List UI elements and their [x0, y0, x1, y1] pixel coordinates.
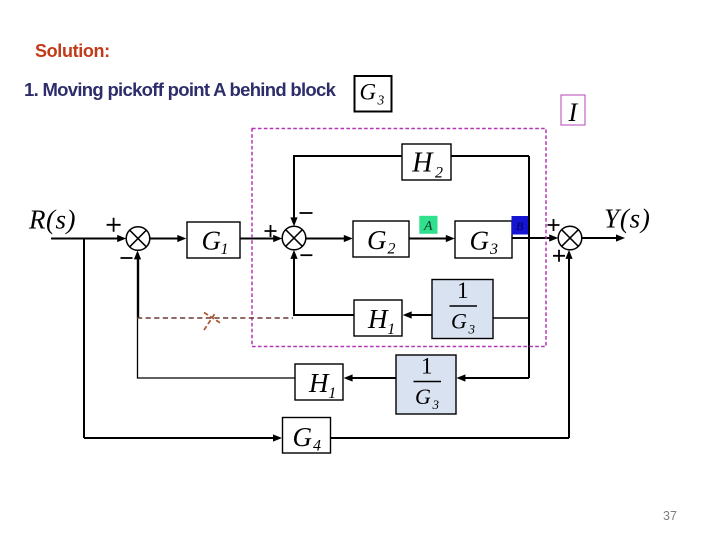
svg-text:3: 3: [489, 241, 498, 258]
arrowhead into H1b: [344, 374, 353, 381]
svg-text:H: H: [411, 148, 434, 179]
subtitle step 1: [24, 79, 335, 101]
arrowhead output Y(s): [616, 234, 625, 241]
sign plus top at S3: [548, 219, 560, 231]
wire 1/G3a to H1a: [411, 314, 432, 316]
block G1: [187, 222, 240, 258]
deletion cross X: [204, 312, 222, 330]
wire B to 1/G3b: [465, 377, 529, 379]
arrowhead into S2 left: [273, 235, 282, 242]
wire H1a to S2 bottom: [294, 258, 354, 315]
sign plus bottom at S3: [553, 250, 565, 262]
svg-text:1: 1: [387, 321, 395, 338]
svg-text:3: 3: [468, 322, 476, 337]
wire G4 output: [331, 437, 570, 439]
wire 1/G3b to H1b: [352, 377, 396, 379]
wire S3 to Y(s): [582, 237, 617, 239]
wire S2 to G2: [306, 238, 345, 240]
block G4: [283, 418, 331, 455]
sign minus bottom at S2: [300, 254, 312, 256]
arrowhead into G2: [344, 235, 353, 242]
arrowhead into S1: [117, 235, 126, 242]
wire 1/G3a right link: [492, 317, 529, 319]
block G3 top (in title): [355, 76, 392, 112]
svg-text:G: G: [451, 309, 467, 334]
svg-text:G: G: [202, 226, 222, 256]
svg-text:1: 1: [328, 385, 336, 402]
block G2: [353, 221, 409, 258]
arrowhead into S3 bottom: [565, 250, 572, 259]
wire input R(s): [51, 238, 118, 240]
box I: [561, 95, 585, 127]
arrowhead into G4: [273, 434, 282, 441]
svg-text:A: A: [423, 219, 433, 234]
sign plus at S2: [265, 225, 277, 237]
wire G3 to S3: [512, 237, 550, 239]
svg-text:1: 1: [457, 278, 469, 303]
arrowhead into G1: [177, 235, 186, 242]
title Solution:: [35, 41, 110, 62]
wire up into summer S3: [568, 258, 570, 438]
summer S1: [126, 227, 150, 251]
block H1a: [354, 300, 402, 338]
summer S3: [558, 226, 582, 250]
wire G1 to S2: [240, 238, 274, 240]
svg-text:1: 1: [221, 241, 229, 258]
svg-text:2: 2: [388, 241, 396, 258]
svg-text:4: 4: [313, 438, 321, 455]
svg-text:1: 1: [421, 354, 433, 379]
svg-text:I: I: [568, 98, 579, 127]
wire old H1 path (removed, dashed brown): [137, 317, 293, 319]
frame moved subsystem (dashed magenta): [252, 129, 546, 347]
svg-text:H: H: [367, 304, 389, 334]
wire H2 output left: [294, 156, 402, 218]
svg-text:R(s): R(s): [28, 205, 76, 235]
arrowhead into S2 top: [290, 217, 297, 226]
svg-text:Y(s): Y(s): [604, 204, 651, 234]
svg-text:3: 3: [377, 93, 385, 108]
arrowhead into G3: [446, 235, 455, 242]
sign minus at S1: [121, 257, 133, 259]
wire H1b left: [138, 318, 296, 378]
wire pickoff B vertical: [528, 156, 530, 378]
block 1/G3a: [432, 278, 493, 339]
svg-text:2: 2: [435, 165, 443, 182]
wire up into S1: [137, 259, 139, 318]
svg-text:3: 3: [432, 397, 440, 412]
sign minus top at S2: [300, 212, 313, 214]
svg-text:G: G: [293, 422, 313, 452]
wire branch down to G4: [83, 239, 85, 439]
arrowhead into H1a: [403, 311, 412, 318]
arrowhead into 1/G3b: [456, 374, 465, 381]
page number 37: [663, 509, 677, 523]
svg-text:G: G: [470, 226, 490, 256]
block H1b: [295, 364, 343, 402]
block H2: [402, 144, 451, 182]
arrowhead into S2 bottom: [290, 250, 297, 259]
arrowhead into S1 bottom: [134, 250, 141, 259]
svg-text:G: G: [415, 384, 431, 409]
svg-text:G: G: [367, 225, 387, 255]
arrowhead into S3 left: [549, 234, 558, 241]
sign plus at S1: [107, 218, 121, 232]
wire H2 input right from pickoff B: [451, 155, 529, 157]
summer S2: [282, 226, 306, 250]
block 1/G3b: [396, 354, 456, 415]
block G3 main: [455, 221, 512, 258]
svg-text:G: G: [360, 80, 377, 105]
wire G2 to G3: [409, 238, 447, 240]
node A highlight: [419, 216, 437, 234]
svg-text:H: H: [308, 368, 330, 398]
node B highlight: [512, 216, 529, 235]
svg-text:B: B: [516, 219, 524, 233]
wire G4 input: [84, 437, 274, 439]
wire S1 to G1: [150, 238, 178, 240]
